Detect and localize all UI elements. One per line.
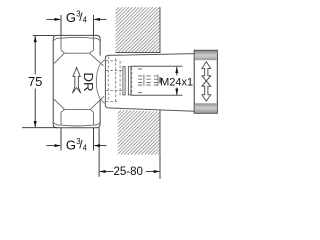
svg-text:4: 4	[83, 143, 88, 152]
svg-text:75: 75	[28, 74, 42, 89]
svg-text:G: G	[66, 138, 76, 153]
svg-text:DR: DR	[81, 72, 96, 91]
svg-text:G: G	[66, 10, 76, 25]
svg-text:4: 4	[83, 16, 88, 25]
svg-text:M24x1: M24x1	[160, 77, 193, 89]
svg-text:25-80: 25-80	[113, 166, 142, 178]
